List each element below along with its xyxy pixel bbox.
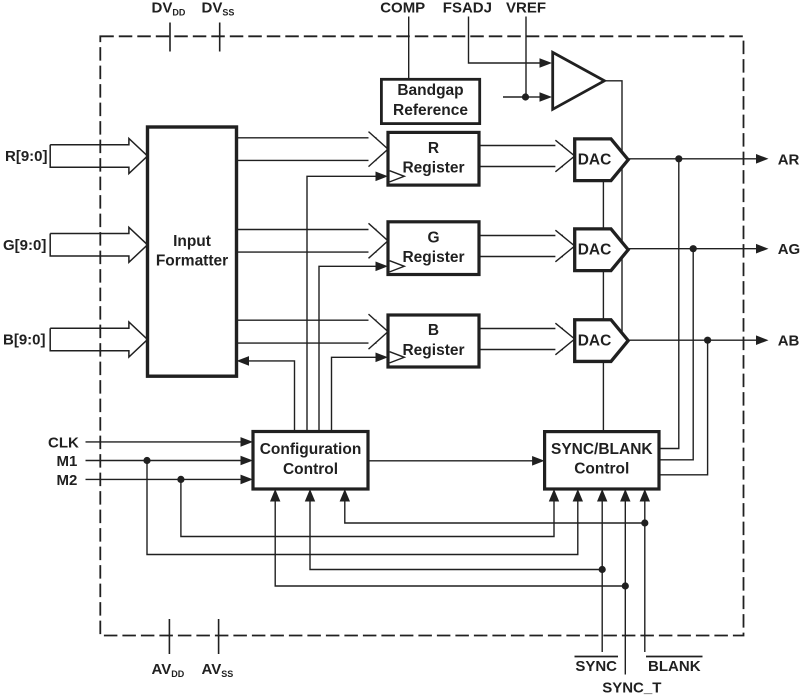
DAC G (575, 229, 629, 271)
wire stub at VREF node (503, 96, 526, 98)
wire FSADJ to amplifier (469, 17, 542, 64)
bus R Register to DAC (479, 145, 563, 147)
bus arrowhead into B Register (369, 314, 389, 349)
bus arrowhead into R DAC (555, 140, 574, 172)
arrow M2 into SYNC/BLANK Control (549, 489, 559, 502)
wire VREF down (525, 17, 527, 98)
svg-text:CLK: CLK (48, 434, 79, 451)
svg-text:AVDD: AVDD (152, 661, 185, 679)
svg-text:DAC: DAC (578, 242, 612, 259)
wire AR output (628, 158, 757, 160)
svg-text:BLANK: BLANK (648, 658, 701, 675)
input bus G[9:0] arrow (50, 227, 147, 262)
bus G Register to DAC (479, 235, 563, 237)
arrow clock into B Register (376, 353, 389, 363)
block G Register (388, 222, 479, 275)
wire amplifier output to DACs (604, 81, 622, 341)
svg-text:Control: Control (283, 461, 338, 478)
clock wedge R Register (390, 171, 405, 182)
svg-text:Register: Register (402, 249, 464, 266)
svg-text:FSADJ: FSADJ (443, 0, 492, 17)
wire clock to R Register (307, 176, 376, 431)
wire M2 (86, 478, 243, 480)
block SYNC/BLANK Control (545, 432, 659, 489)
bus Input Formatter to G Register (237, 229, 377, 231)
wire CLK (86, 441, 243, 443)
arrow AR (756, 154, 769, 164)
arrow M1 into Configuration Control (241, 456, 254, 466)
clock wedge G Register (390, 261, 405, 272)
svg-text:R[9:0]: R[9:0] (5, 148, 48, 165)
input bus B[9:0] arrow (50, 322, 147, 357)
svg-text:AG: AG (778, 241, 800, 258)
node AR junction (675, 155, 682, 162)
svg-text:SYNC: SYNC (575, 658, 617, 675)
wire M1 (86, 460, 243, 462)
arrow SYNC into Configuration Control (305, 489, 315, 502)
arrow M2 into Configuration Control (241, 475, 254, 485)
svg-text:Bandgap: Bandgap (397, 82, 463, 99)
arrow SYNC into SYNC/BLANK Control (597, 489, 607, 502)
arrow FSADJ into amplifier (540, 58, 553, 68)
arrow into SYNC/BLANK Control (532, 456, 545, 466)
wire M1 to SYNC/BLANK Control (147, 461, 578, 555)
arrow M1 into SYNC/BLANK Control (573, 489, 583, 502)
wire AG output (628, 248, 757, 250)
wire AG node to SYNC/BLANK Control (659, 249, 693, 460)
bus Input Formatter to B Register (237, 319, 377, 321)
svg-text:DAC: DAC (578, 332, 612, 349)
svg-text:AB: AB (778, 333, 800, 350)
arrow BLANK into Configuration Control (340, 489, 350, 502)
svg-text:SYNC/BLANK: SYNC/BLANK (551, 441, 653, 458)
wire AB node to SYNC/BLANK Control (659, 340, 708, 475)
wire SYNC branch to Configuration Control (310, 501, 602, 570)
svg-text:Input: Input (173, 233, 211, 250)
wire BLANK vertical (644, 489, 646, 652)
svg-text:DVDD: DVDD (152, 0, 186, 17)
svg-text:G: G (427, 229, 439, 246)
wire clock to G Register (319, 266, 376, 431)
svg-text:B[9:0]: B[9:0] (3, 332, 46, 349)
node M1 junction (143, 457, 150, 464)
AVDD supply pin tick (168, 619, 170, 654)
block R Register (388, 132, 479, 185)
op-amp reference amplifier (553, 52, 605, 109)
wire AB output (628, 339, 757, 341)
svg-text:Formatter: Formatter (156, 253, 228, 270)
svg-text:M1: M1 (57, 453, 78, 470)
svg-text:Control: Control (574, 460, 629, 477)
wire SYNC_T vertical (624, 489, 626, 675)
bus arrowhead into G DAC (555, 230, 574, 262)
node SYNC junction (599, 566, 606, 573)
block B Register (388, 315, 479, 367)
node M2 junction (177, 476, 184, 483)
node BLANK junction (641, 519, 648, 526)
svg-text:AVSS: AVSS (202, 661, 234, 679)
bus arrowhead into B DAC (555, 323, 574, 355)
arrow SYNC_T into SYNC/BLANK Control (620, 489, 630, 502)
block Configuration Control (253, 432, 368, 490)
wire COMP to Bandgap Reference (408, 17, 410, 80)
svg-text:VREF: VREF (506, 0, 546, 17)
clock wedge B Register (390, 352, 405, 363)
arrow CLK into Configuration Control (241, 437, 254, 447)
wire VREF to amplifier (526, 96, 541, 98)
svg-text:Register: Register (402, 160, 464, 177)
DVDD supply pin tick (169, 23, 171, 52)
svg-text:COMP: COMP (380, 0, 425, 17)
svg-text:G[9:0]: G[9:0] (3, 237, 46, 254)
wire BLANK branch to Configuration Control (345, 501, 645, 523)
arrow SYNC_T into Configuration Control (270, 489, 280, 502)
block Input Formatter (148, 127, 237, 376)
arrow VREF into amplifier (540, 92, 553, 102)
DVSS supply pin tick (219, 23, 221, 52)
svg-text:DAC: DAC (578, 152, 612, 169)
svg-text:Register: Register (402, 342, 464, 359)
wire clock to B Register (332, 357, 376, 431)
wire M2 to SYNC/BLANK Control (181, 479, 554, 536)
bus Input Formatter to R Register (237, 137, 377, 139)
DAC B (575, 320, 629, 362)
wire SYNC_T branch to Configuration Control (275, 501, 625, 586)
svg-text:Configuration: Configuration (260, 441, 362, 458)
wire SYNC vertical (601, 489, 603, 652)
arrow BLANK into SYNC/BLANK Control (640, 489, 650, 502)
AVSS supply pin tick (218, 619, 220, 654)
bus arrowhead into G Register (369, 223, 389, 258)
bus arrowhead into R Register (369, 132, 389, 167)
wire DAC chain to SYNC/BLANK Control (602, 160, 604, 432)
svg-text:AR: AR (778, 151, 800, 168)
wire Configuration Control to SYNC/BLANK Control (368, 460, 533, 462)
block Bandgap Reference (381, 79, 479, 123)
wire AR node to SYNC/BLANK Control (659, 159, 679, 449)
svg-text:M2: M2 (57, 472, 78, 489)
node AB junction (704, 337, 711, 344)
svg-text:R: R (428, 140, 439, 157)
node VREF junction (522, 93, 529, 100)
input bus R[9:0] arrow (50, 139, 147, 174)
svg-text:SYNC_T: SYNC_T (602, 680, 661, 696)
arrow AG (756, 244, 769, 254)
arrow clock into R Register (376, 172, 389, 182)
dashed chip boundary (100, 36, 743, 635)
svg-text:DVSS: DVSS (202, 0, 235, 17)
arrow AB (756, 335, 769, 345)
DAC R (575, 139, 629, 181)
svg-text:B: B (428, 322, 439, 339)
node SYNC_T junction (622, 582, 629, 589)
arrow feedback into Input Formatter (237, 356, 250, 366)
svg-text:Reference: Reference (393, 102, 468, 119)
node AG junction (690, 245, 697, 252)
wire feedback to Input Formatter (249, 361, 295, 432)
bus B Register to DAC (479, 328, 563, 330)
arrow clock into G Register (376, 262, 389, 272)
